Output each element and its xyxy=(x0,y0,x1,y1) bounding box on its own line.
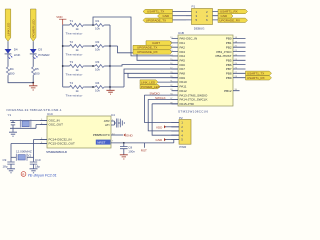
svg-text:Thermistor: Thermistor xyxy=(66,31,83,35)
wire xyxy=(104,86,124,88)
svg-text:Thermistor: Thermistor xyxy=(66,52,83,56)
svg-text:10k: 10k xyxy=(95,48,100,52)
svg-text:PB9: PB9 xyxy=(226,76,232,80)
thermistor T3 xyxy=(63,60,85,77)
resistor R4 300 xyxy=(6,67,14,76)
port USART1_RX (right) xyxy=(246,76,272,80)
svg-text:POWER_LED: POWER_LED xyxy=(141,85,161,89)
svg-text:1k: 1k xyxy=(76,68,80,72)
svg-text:YE-Jinyun FC2.01: YE-Jinyun FC2.01 xyxy=(28,173,57,177)
port USART1_TX (debug left) xyxy=(143,9,186,13)
svg-text:T3: T3 xyxy=(70,60,74,64)
svg-text:P2: P2 xyxy=(179,116,183,120)
wire xyxy=(104,45,117,47)
port POWER LED (vertical) xyxy=(30,9,36,41)
wire xyxy=(32,41,34,49)
svg-text:SWCLK: SWCLK xyxy=(155,96,166,100)
svg-text:GND: GND xyxy=(156,138,164,142)
wire NRST to P2 pin5 xyxy=(141,140,174,153)
svg-text:R4: R4 xyxy=(96,81,100,85)
power ground xyxy=(29,83,37,90)
svg-text:PB0: PB0 xyxy=(226,37,232,41)
svg-text:P1: P1 xyxy=(192,5,196,9)
svg-text:PA2: PA2 xyxy=(180,45,186,49)
svg-text:LINK: LINK xyxy=(14,53,21,57)
NRST pin highlighted xyxy=(96,140,111,145)
svg-text:UPGRADE_RX: UPGRADE_RX xyxy=(219,19,240,23)
svg-text:C10: C10 xyxy=(35,158,41,162)
op-amp U1C MCU osc part xyxy=(40,112,115,154)
svg-text:LINK_LED: LINK_LED xyxy=(141,80,156,84)
LED D4 xyxy=(5,48,21,59)
svg-text:ATI: ATI xyxy=(105,123,110,127)
junction xyxy=(32,82,34,84)
wire xyxy=(85,24,96,26)
wire xyxy=(104,24,110,26)
svg-text:T2: T2 xyxy=(70,40,74,44)
junction xyxy=(92,24,94,26)
svg-text:POWER LED: POWER LED xyxy=(32,19,36,38)
svg-text:T1: T1 xyxy=(70,19,74,23)
svg-text:C4: C4 xyxy=(111,113,115,117)
svg-text:POWER: POWER xyxy=(38,53,50,57)
port GND (debug left) xyxy=(158,14,187,18)
svg-text:LINK LED: LINK LED xyxy=(6,22,10,36)
wire xyxy=(104,65,110,67)
net SWCLK xyxy=(148,96,178,100)
svg-text:USART1_TX: USART1_TX xyxy=(247,71,264,75)
svg-text:1k: 1k xyxy=(76,48,80,52)
svg-text:PB12: PB12 xyxy=(224,89,232,93)
svg-text:10k: 10k xyxy=(95,27,100,31)
resistor R3 10k xyxy=(95,60,104,72)
svg-text:UPGRADE_TX: UPGRADE_TX xyxy=(146,19,166,23)
port UPGRADE_TX (debug left) xyxy=(143,18,186,22)
capacitor C8 100n on NRST xyxy=(111,142,174,155)
svg-text:U1B: U1B xyxy=(178,31,184,35)
svg-text:UART: UART xyxy=(152,41,160,45)
port LINK LED (vertical) xyxy=(5,9,11,41)
capacitor C10 18p xyxy=(30,158,41,169)
net SWDIO xyxy=(144,92,178,96)
svg-text:C9: C9 xyxy=(3,158,7,162)
svg-text:Y2: Y2 xyxy=(28,153,32,157)
svg-text:GND: GND xyxy=(126,134,134,138)
svg-text:R4: R4 xyxy=(10,67,14,71)
thermistor T4 xyxy=(63,81,85,98)
svg-text:PB8: PB8 xyxy=(226,72,232,76)
wire xyxy=(8,75,33,83)
svg-text:UPGRADE_TX: UPGRADE_TX xyxy=(137,46,157,50)
svg-text:STM32W108CCU6: STM32W108CCU6 xyxy=(46,150,67,154)
wire xyxy=(85,45,96,47)
wire xyxy=(7,41,9,49)
port USART1_TX (right) xyxy=(246,71,272,75)
svg-text:R2: R2 xyxy=(96,40,100,44)
svg-text:USART1_RX: USART1_RX xyxy=(247,76,265,80)
svg-text:PWR: PWR xyxy=(179,145,187,149)
capacitor C4 and ground (ATR/ATI) xyxy=(111,113,124,128)
power ground (C8) xyxy=(120,155,128,159)
svg-text:300: 300 xyxy=(35,72,40,76)
logo watermark xyxy=(21,172,57,178)
wire tap ch2 to PA5 xyxy=(118,46,179,60)
svg-text:D4: D4 xyxy=(14,48,18,52)
port LINK_LED xyxy=(140,80,178,84)
junction xyxy=(92,86,94,88)
ground (C10) xyxy=(30,169,38,173)
svg-text:USART1_TX: USART1_TX xyxy=(147,10,164,14)
wire PA15-JTDI to P2 pin4 xyxy=(152,104,179,135)
svg-text:PA10: PA10 xyxy=(180,80,187,84)
svg-text:RST: RST xyxy=(141,149,147,153)
power ground xyxy=(106,90,114,94)
svg-text:Thermistor: Thermistor xyxy=(66,93,83,97)
wire VDD bus xyxy=(62,25,64,87)
connector P1 DEBUG xyxy=(186,5,218,31)
wire tap ch3 to PA6 xyxy=(110,65,178,66)
svg-text:U1C: U1C xyxy=(47,112,54,116)
wire xyxy=(85,65,96,67)
svg-text:10k: 10k xyxy=(95,89,100,93)
svg-text:OSC_OUT: OSC_OUT xyxy=(49,123,64,127)
svg-text:R5: R5 xyxy=(35,67,39,71)
wire xyxy=(32,75,34,83)
svg-text:10k: 10k xyxy=(95,68,100,72)
ground (C9) xyxy=(7,169,15,173)
port GND (debug right) xyxy=(218,14,233,18)
svg-text:300: 300 xyxy=(9,72,14,76)
resistor R5 300 xyxy=(32,67,40,76)
wire to PA8 xyxy=(124,72,178,74)
wire SWDIO to P2 pin1 xyxy=(144,95,179,122)
svg-text:PA14-JTCK_SWCLK: PA14-JTCK_SWCLK xyxy=(180,98,208,102)
svg-text:VDD: VDD xyxy=(156,125,163,129)
port UPGRADE_RX xyxy=(133,50,172,54)
LED D3 xyxy=(30,48,51,59)
wire divider ground bus xyxy=(109,25,111,90)
svg-text:1k: 1k xyxy=(76,89,80,93)
port POWER_LED xyxy=(140,84,178,88)
svg-text:100n: 100n xyxy=(128,150,135,154)
svg-text:DEBUG: DEBUG xyxy=(194,26,205,30)
thermistor T2 xyxy=(63,40,85,57)
wire SWCLK to P2 pin3 xyxy=(148,99,179,130)
wire xyxy=(85,86,96,88)
svg-text:18p: 18p xyxy=(35,165,40,169)
svg-text:PA8: PA8 xyxy=(180,72,186,76)
power VDD xyxy=(56,15,66,25)
port UPGRADE_RX (debug right) xyxy=(218,18,248,22)
resistor R1 10k xyxy=(95,19,104,31)
wire to PA9 xyxy=(128,73,178,77)
power GND tag (P2 pin5) xyxy=(156,138,180,142)
svg-text:UPGRADE_RX: UPGRADE_RX xyxy=(137,50,158,54)
junction xyxy=(92,65,94,67)
svg-text:T4: T4 xyxy=(70,81,74,85)
svg-text:Y1: Y1 xyxy=(8,113,12,117)
op-amp U1B MCU STM32W108 xyxy=(178,31,233,114)
svg-text:NX3215SA-32.768KHZ-STD-CSR-1: NX3215SA-32.768KHZ-STD-CSR-1 xyxy=(7,108,62,112)
resistor R2 10k xyxy=(95,40,104,52)
wire tap ch4 to PA7 xyxy=(124,69,178,87)
svg-text:PA12: PA12 xyxy=(180,89,187,93)
svg-text:18p: 18p xyxy=(3,165,8,169)
svg-text:PB6: PB6 xyxy=(226,63,232,67)
svg-text:PB4-JTRST: PB4-JTRST xyxy=(215,54,231,58)
ground (Y1) xyxy=(9,128,17,136)
junction bus dots xyxy=(62,45,64,47)
svg-text:VDD: VDD xyxy=(56,15,63,19)
svg-text:STM32W108CCU6: STM32W108CCU6 xyxy=(178,110,208,114)
svg-text:R3: R3 xyxy=(96,60,100,64)
svg-text:PA6: PA6 xyxy=(180,63,186,67)
svg-text:R1: R1 xyxy=(96,19,100,23)
thermistor T1 xyxy=(63,19,85,36)
svg-text:PB8/BOOT0: PB8/BOOT0 xyxy=(93,133,110,137)
port USART1_RX (debug right) xyxy=(218,9,248,13)
port UPGRADE_TX xyxy=(133,45,172,49)
svg-text:NRST: NRST xyxy=(97,141,105,145)
wire tap ch1 to PA4 xyxy=(93,17,178,56)
capacitor C9 18p xyxy=(3,158,15,169)
svg-text:PC15-OSC32_OUT: PC15-OSC32_OUT xyxy=(49,142,76,146)
wire xyxy=(7,54,9,67)
svg-text:PA15-JTDI: PA15-JTDI xyxy=(180,102,195,106)
crystal Y2 12MHz xyxy=(11,140,47,162)
svg-text:D3: D3 xyxy=(38,48,42,52)
net BOOT0 to GND tag xyxy=(111,133,134,137)
svg-text:PA4: PA4 xyxy=(180,54,186,58)
MCU left pins PA0-PA15 xyxy=(170,37,208,106)
MCU right pins PB0-PB9, PB12 xyxy=(215,37,245,93)
resistor R4 10k xyxy=(95,81,104,93)
svg-text:Thermistor: Thermistor xyxy=(66,72,83,76)
svg-text:USART1_RX: USART1_RX xyxy=(220,10,238,14)
wire xyxy=(32,54,34,67)
svg-text:PB2: PB2 xyxy=(226,45,232,49)
svg-text:PA0-OSC_IN: PA0-OSC_IN xyxy=(180,37,198,41)
junction xyxy=(92,45,94,47)
port UART xyxy=(146,41,172,45)
power VDD tag (P2 pin2) xyxy=(156,125,179,129)
svg-text:1k: 1k xyxy=(76,27,80,31)
crystal Y1 32.768kHz xyxy=(7,108,62,129)
connector P2 SWD xyxy=(171,116,191,149)
